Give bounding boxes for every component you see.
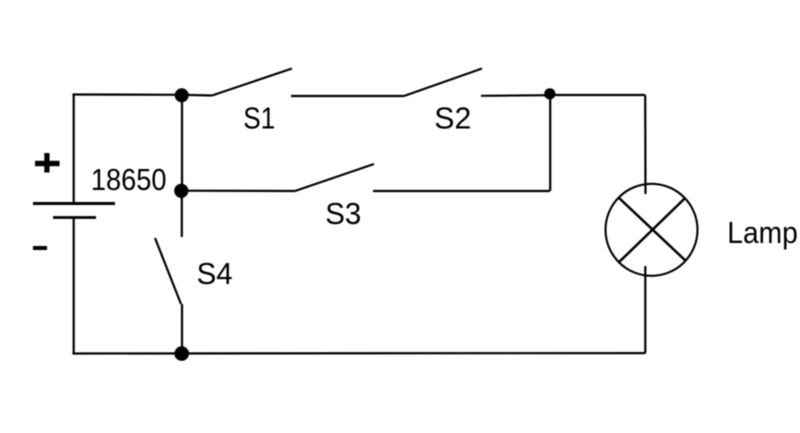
svg-text:18650: 18650 [91,162,167,197]
node A (top junction) [175,88,189,102]
battery plus sign [35,161,60,166]
svg-text:S1: S1 [243,101,275,136]
switch S1 blade [212,69,292,96]
wire node B down to S4 top contact [181,191,183,238]
svg-text:S2: S2 [434,101,471,136]
wire node B to S3 left contact [182,190,296,193]
wire left vertical lower (battery - plate down to bottom wire) [73,218,75,354]
switch S2 blade [404,69,482,97]
wire lamp top stub (vertical down into lamp) [644,95,646,194]
lamp L1 circle [606,184,698,276]
lamp L1 cross diagonal NE-SW [618,198,685,262]
svg-text:S4: S4 [197,256,233,291]
battery BT1 positive plate (long) [33,202,115,205]
wire S3 right contact to right riser [373,190,550,192]
wire top-left horizontal (battery+ to node A and S1 left contact) [72,95,212,96]
wire node A down to node B [181,95,183,191]
battery minus sign [33,246,47,250]
node D (bottom junction) [174,346,189,361]
wire S4 bottom contact down to node D [181,304,183,354]
wire left vertical upper (top wire down to battery + plate) [73,95,75,204]
wire lamp bottom stub [644,266,646,353]
node C (right junction) [544,88,555,99]
wire bottom horizontal [72,352,645,355]
wire S2 right contact to node C [481,94,550,97]
node B (middle junction) [174,184,188,198]
svg-text:Lamp: Lamp [727,215,798,250]
wire right riser (S3 level up to node C) [549,95,551,191]
wire between S1 and S2 [291,95,404,97]
switch S3 blade [295,164,374,191]
svg-text:S3: S3 [325,196,361,231]
switch S4 blade [155,238,181,304]
lamp L1 cross diagonal NW-SE [619,198,686,261]
wire node C to top-right corner [550,94,645,96]
battery BT1 negative plate (short) [53,216,96,219]
